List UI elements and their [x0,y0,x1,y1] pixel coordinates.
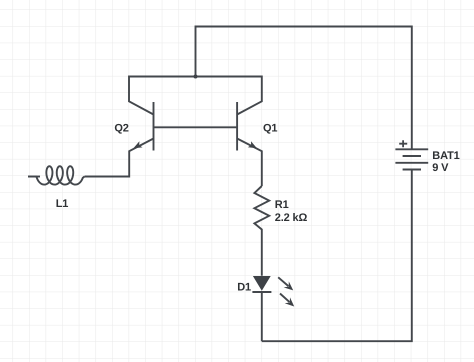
svg-text:BAT1: BAT1 [432,150,459,162]
svg-text:9 V: 9 V [432,162,449,174]
svg-text:Q1: Q1 [263,122,277,134]
svg-text:2.2 kΩ: 2.2 kΩ [275,212,308,224]
svg-text:L1: L1 [56,198,69,210]
svg-text:Q2: Q2 [114,122,128,134]
svg-text:R1: R1 [275,199,289,211]
svg-text:D1: D1 [237,282,251,294]
